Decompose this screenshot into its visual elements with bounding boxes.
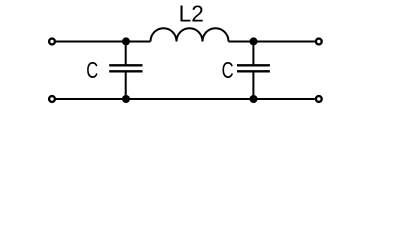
terminal T2 (top-right output) bbox=[316, 39, 322, 45]
node B (junction dot, top of C2) bbox=[250, 37, 258, 45]
node C (junction dot, bottom of C1) bbox=[122, 95, 130, 103]
node D (junction dot, bottom of C2) bbox=[250, 95, 258, 103]
terminal T1 (top-left input) bbox=[49, 39, 55, 45]
svg-text:C: C bbox=[222, 57, 234, 83]
capacitor C2 bbox=[237, 42, 270, 100]
wire (top-right: node B to output terminal) bbox=[229, 41, 315, 43]
capacitor C1 bbox=[109, 42, 142, 100]
node A (junction dot, top of C1) bbox=[122, 37, 130, 45]
inductor L2 bbox=[151, 28, 229, 41]
wire (bottom rail) bbox=[56, 98, 315, 100]
terminal T3 (bottom-left) bbox=[49, 96, 55, 102]
wire (top-left: input terminal to node A) bbox=[56, 41, 151, 43]
svg-text:C: C bbox=[86, 57, 98, 83]
svg-text:L2: L2 bbox=[179, 1, 204, 27]
terminal T4 (bottom-right) bbox=[316, 96, 322, 102]
